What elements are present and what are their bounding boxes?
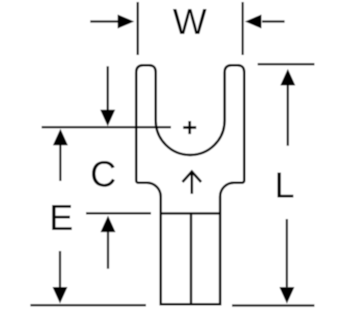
barrel center seam xyxy=(190,213,192,304)
stud centerline xyxy=(42,126,171,128)
W left arrow xyxy=(90,20,118,22)
C top arrow xyxy=(107,66,109,111)
svg-text:L: L xyxy=(274,164,294,205)
W left extension line xyxy=(137,2,139,55)
bottom right dimension line xyxy=(232,304,314,306)
E top arrow xyxy=(59,145,61,181)
center cross mark xyxy=(183,126,196,129)
L top reference line xyxy=(258,63,315,65)
barrel top edge xyxy=(161,212,220,214)
W right arrow xyxy=(262,20,285,22)
C reference line xyxy=(86,212,151,214)
svg-text:C: C xyxy=(90,153,116,194)
svg-text:W: W xyxy=(173,1,207,42)
L bottom arrow xyxy=(286,219,288,287)
L top arrow xyxy=(287,85,289,146)
E bottom arrow xyxy=(59,251,61,287)
W right extension line xyxy=(242,2,244,55)
bottom left dimension line xyxy=(30,304,146,306)
wire insertion arrow xyxy=(191,173,194,194)
fork terminal outline xyxy=(136,65,244,304)
C bottom arrow xyxy=(107,232,109,269)
svg-text:E: E xyxy=(49,197,73,238)
